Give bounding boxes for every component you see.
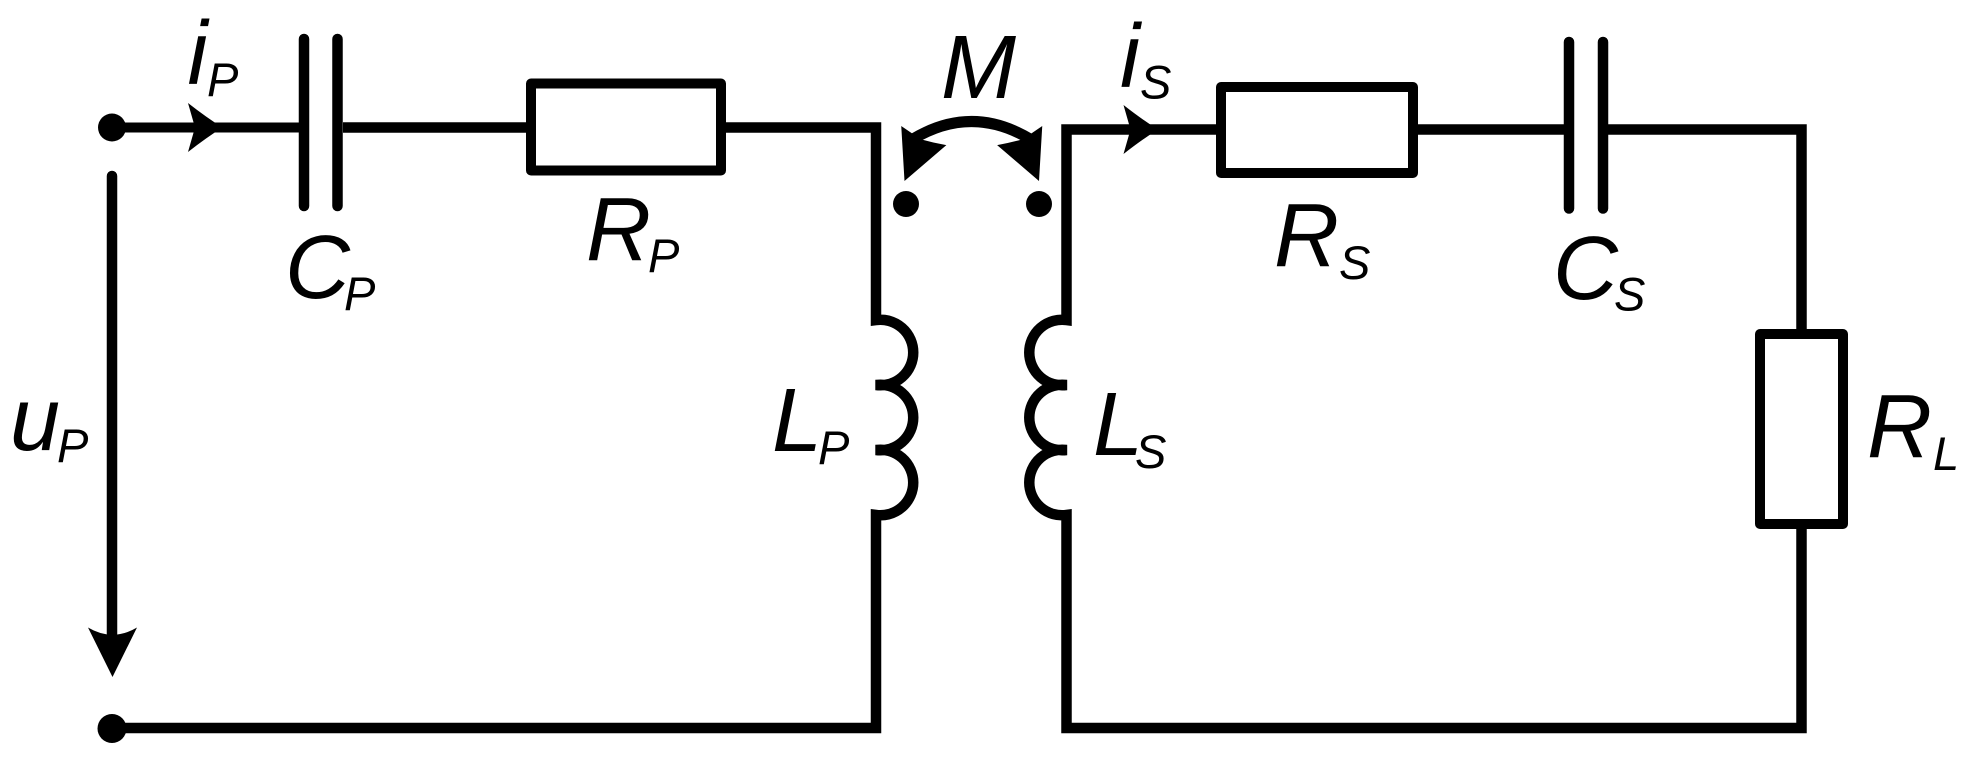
svg-text:L: L <box>772 371 822 471</box>
resistor R_L <box>1760 334 1843 524</box>
label u_P <box>10 370 89 472</box>
mutual coupling arc M <box>913 122 1030 140</box>
polarity dot of L_S <box>1026 191 1052 217</box>
capacitor C_P <box>304 39 338 206</box>
current arrow i_S <box>1124 105 1159 154</box>
wire from C_P right plate through R_P, down right side, inductor L_P, and bottom wire back to node B <box>112 128 913 729</box>
svg-text:S: S <box>1140 56 1171 109</box>
wire from node A to capacitor C_P left plate <box>112 123 299 133</box>
polarity dot of L_P <box>893 191 919 217</box>
svg-text:u: u <box>10 370 60 470</box>
svg-text:P: P <box>344 267 376 320</box>
node B (bottom-left terminal) <box>98 714 127 743</box>
capacitor C_S <box>1569 42 1603 209</box>
svg-text:R: R <box>1867 377 1932 477</box>
svg-text:P: P <box>648 229 680 282</box>
wire from R_L top to top-right corner and left to C_S right plate <box>1608 130 1802 335</box>
label R_S <box>1274 186 1370 289</box>
svg-text:P: P <box>57 419 89 472</box>
label R_P <box>586 180 680 282</box>
voltage arrow u_P shaft <box>107 176 118 634</box>
svg-text:C: C <box>285 218 351 318</box>
label i_P <box>188 4 240 106</box>
current arrow i_P <box>188 103 223 152</box>
wire from C_S left plate back through R_S to corner, down left side of right loop, inductor L_S, bottom wire, and up to R_L bottom <box>1029 130 1801 729</box>
voltage arrow u_P head <box>88 628 137 678</box>
label i_S <box>1120 7 1171 109</box>
label L_S <box>1093 375 1166 478</box>
svg-text:S: S <box>1135 425 1166 478</box>
label C_P <box>285 218 376 320</box>
label C_S <box>1553 219 1645 321</box>
svg-text:P: P <box>207 53 239 106</box>
label L_P <box>772 371 850 474</box>
svg-text:M: M <box>941 18 1016 118</box>
coupling arrowhead left <box>882 126 946 191</box>
svg-text:R: R <box>1274 186 1339 286</box>
node A (top-left terminal) <box>98 114 126 142</box>
label R_L <box>1867 377 1959 480</box>
resistor R_S <box>1221 87 1413 173</box>
svg-text:L: L <box>1933 427 1959 480</box>
svg-text:S: S <box>1339 236 1370 289</box>
coupling arrowhead right <box>997 126 1061 191</box>
svg-text:S: S <box>1614 268 1645 321</box>
svg-text:R: R <box>586 180 651 280</box>
svg-text:P: P <box>818 421 850 474</box>
svg-text:C: C <box>1553 219 1619 319</box>
resistor R_P <box>531 84 721 171</box>
